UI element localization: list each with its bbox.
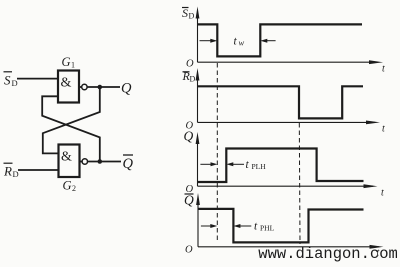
svg-text:1: 1 [71, 61, 75, 70]
label Qbar output [123, 155, 134, 172]
dashed timing reference line at SD falling edge [216, 63, 218, 240]
waveform Q [198, 149, 364, 183]
axis SD horizontal [198, 60, 384, 64]
waveform RD [198, 86, 364, 118]
dimension arrow tw left [200, 39, 218, 43]
label G2 [63, 179, 77, 194]
svg-text:Q: Q [121, 81, 132, 97]
NAND gate G2 [59, 145, 80, 178]
axis RD horizontal [198, 121, 381, 125]
svg-text:2: 2 [72, 184, 76, 193]
wire feedback Q to G2 input [43, 89, 100, 153]
node Qbar junction [98, 159, 103, 164]
wire G2 output to Qbar [88, 161, 122, 163]
wire feedback Qbar to G1 input [42, 96, 100, 159]
axis Qbar horizontal [198, 245, 384, 249]
axis SD vertical [196, 7, 200, 63]
svg-text:t: t [382, 64, 385, 75]
output bubble G2 [80, 159, 88, 164]
svg-text:G: G [62, 55, 71, 69]
svg-text:D: D [190, 75, 196, 84]
label G1 [62, 55, 76, 70]
NAND gate G1 [58, 71, 79, 103]
svg-text:D: D [12, 78, 18, 88]
svg-text:Q: Q [123, 156, 134, 172]
label SD axis [182, 6, 195, 21]
wire RD to G2 [18, 169, 59, 171]
svg-text:S: S [4, 73, 11, 88]
svg-text:D: D [13, 169, 19, 179]
svg-text:O: O [185, 245, 193, 256]
label tw [234, 36, 245, 48]
dimension arrow tPHL left [201, 224, 217, 228]
output bubble G1 [79, 84, 87, 89]
svg-text:R: R [3, 164, 12, 179]
dimension arrow tw right [260, 39, 275, 43]
svg-text:S: S [182, 6, 188, 20]
axis Q horizontal [198, 184, 378, 188]
svg-text:t: t [381, 188, 384, 199]
dimension arrow tPLH right [226, 162, 244, 166]
svg-text:&: & [61, 150, 72, 165]
svg-text:www.diangon.com: www.diangon.com [258, 245, 398, 263]
label tPLH [246, 159, 267, 171]
svg-text:Q: Q [184, 193, 194, 208]
axis Qbar vertical [196, 193, 200, 247]
waveform Qbar [198, 209, 364, 243]
label Qbar axis [184, 193, 194, 208]
svg-text:&: & [61, 76, 72, 91]
svg-text:t: t [382, 124, 385, 135]
svg-text:O: O [186, 59, 194, 70]
dimension arrow tPLH left [200, 162, 217, 166]
dimension arrow tPHL right [233, 224, 251, 228]
axis Q vertical [196, 132, 200, 186]
axis RD vertical [196, 68, 200, 122]
svg-text:PLH: PLH [252, 162, 267, 171]
svg-text:PHL: PHL [260, 224, 275, 233]
wire G1 output to Q [87, 86, 120, 88]
svg-text:G: G [63, 179, 72, 193]
label tPHL [254, 221, 275, 233]
node Q junction [98, 85, 103, 90]
dashed timing reference line at RD falling edge [298, 123, 301, 244]
svg-text:D: D [189, 12, 195, 21]
svg-text:Q: Q [184, 129, 194, 144]
label SD input [4, 72, 18, 88]
label RD axis [182, 69, 196, 84]
wire SD to G1 [17, 78, 58, 80]
svg-text:w: w [239, 38, 245, 48]
waveform SD [198, 24, 363, 56]
label RD input [3, 163, 19, 179]
